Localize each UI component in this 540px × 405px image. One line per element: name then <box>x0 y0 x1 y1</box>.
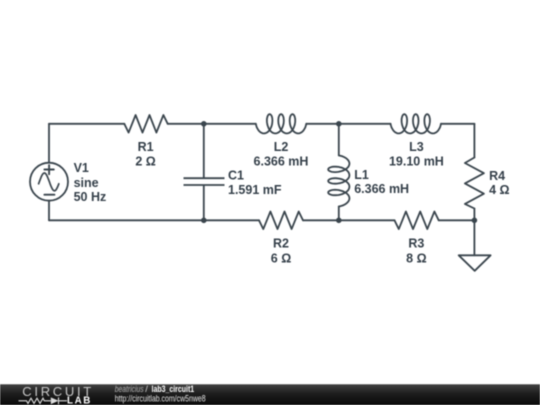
svg-text:V1: V1 <box>74 161 89 175</box>
voltage source V1 circle <box>30 163 68 201</box>
svg-text:6 Ω: 6 Ω <box>271 252 291 266</box>
wire left rail top <box>48 124 50 163</box>
wire bottom left horizontal <box>49 219 259 221</box>
node bottom-right junction dot <box>472 218 478 224</box>
node B junction dot <box>336 121 342 127</box>
inductor L1 <box>328 155 349 206</box>
capacitor C1 plates <box>184 178 225 185</box>
wire L2 to node B <box>306 123 339 125</box>
svg-text:R1: R1 <box>138 140 154 154</box>
inductor L2 <box>256 114 306 133</box>
wire L1 to bottom wire <box>338 207 340 221</box>
wire R3 to right bottom node <box>439 219 475 221</box>
svg-text:L2: L2 <box>274 140 289 154</box>
node bottom-A junction dot <box>201 218 207 224</box>
svg-text:50 Hz: 50 Hz <box>74 190 107 204</box>
ground <box>459 255 491 270</box>
V1 sine wave <box>39 173 59 191</box>
inductor L3 <box>391 114 442 133</box>
svg-text:6.366 mH: 6.366 mH <box>354 182 409 196</box>
capacitor C1 bottom lead <box>203 185 205 220</box>
wire L3 to right rail corner <box>441 123 474 125</box>
wire R4 to bottom node <box>473 209 475 221</box>
svg-text:8 Ω: 8 Ω <box>406 252 426 266</box>
capacitor C1 top lead <box>203 124 205 178</box>
V1 minus sign <box>44 194 54 196</box>
node A junction dot <box>201 121 207 127</box>
wire node A to L2 <box>204 123 256 125</box>
logo diode bar + wire <box>59 397 68 404</box>
svg-text:R4: R4 <box>489 169 505 183</box>
svg-text:1.591 mF: 1.591 mF <box>228 183 282 197</box>
wire R2 to L1 bottom node <box>303 219 339 221</box>
svg-text:4 Ω: 4 Ω <box>489 183 509 197</box>
resistor R1 <box>124 115 167 133</box>
svg-text:2 Ω: 2 Ω <box>135 155 155 169</box>
wire left rail bottom <box>48 201 50 221</box>
svg-text:6.366 mH: 6.366 mH <box>254 155 309 169</box>
wire right rail down to R4 <box>473 124 475 158</box>
wire R1 to node A <box>168 123 204 125</box>
svg-text:http://circuitlab.com/cw5nwe8: http://circuitlab.com/cw5nwe8 <box>115 393 206 404</box>
svg-text:C1: C1 <box>228 169 244 183</box>
svg-text:L1: L1 <box>354 168 369 182</box>
V1 plus sign <box>44 165 53 174</box>
wire L1 node to R3 <box>339 219 395 221</box>
resistor R3 <box>395 212 439 230</box>
logo mini circuit wire + resistor <box>19 398 51 403</box>
wire node B to L3 <box>339 123 391 125</box>
wire node B down to L1 <box>338 124 340 156</box>
svg-text:R3: R3 <box>408 237 424 251</box>
node bottom-B junction dot <box>336 218 342 224</box>
svg-text:sine: sine <box>74 176 99 190</box>
footer bar <box>0 384 540 405</box>
resistor R4 <box>465 158 484 209</box>
svg-text:LAB: LAB <box>67 396 92 405</box>
wire top-left horizontal <box>49 123 124 125</box>
logo diode <box>51 397 59 404</box>
svg-text:R2: R2 <box>273 237 289 251</box>
svg-text:L3: L3 <box>409 140 424 154</box>
svg-text:19.10 mH: 19.10 mH <box>389 155 444 169</box>
resistor R2 <box>259 212 303 230</box>
wire bottom node to ground <box>473 220 475 255</box>
